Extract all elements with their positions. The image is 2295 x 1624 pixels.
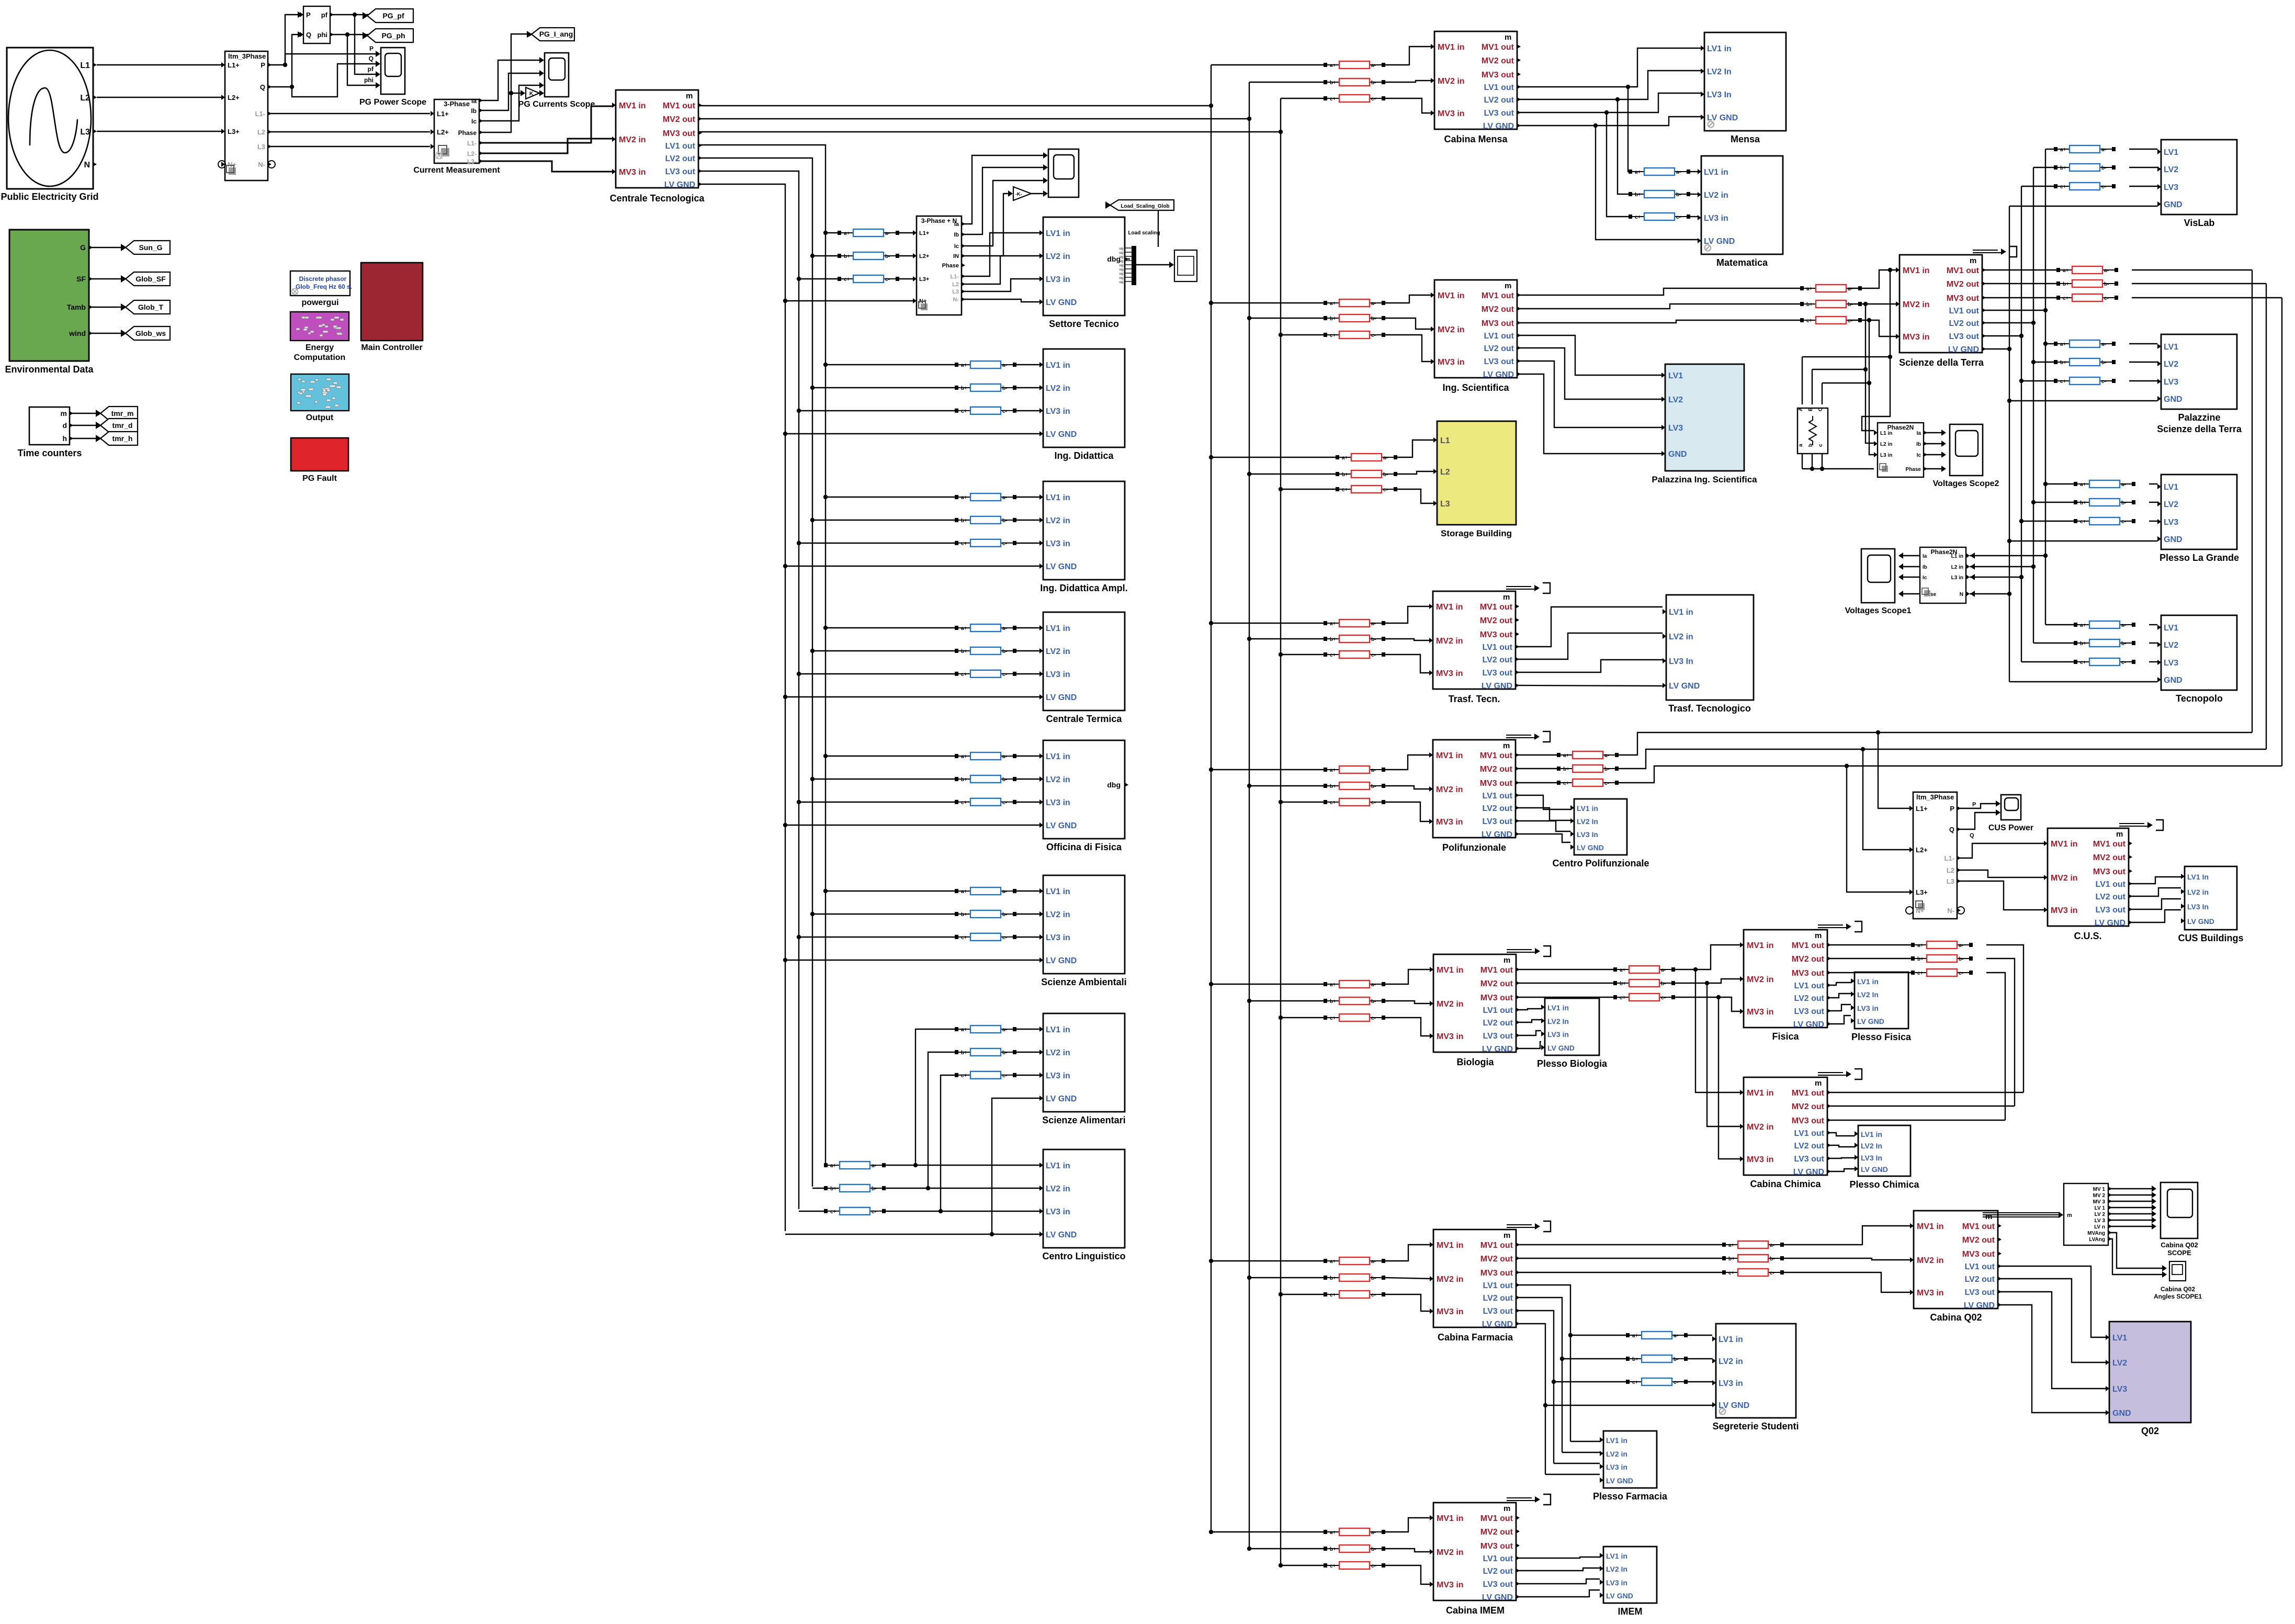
svg-text:LV2 out: LV2 out bbox=[2096, 893, 2126, 901]
wire Ing.Scientifica MV3 out bbox=[1517, 320, 1800, 323]
svg-text:Ing. Didattica Ampl.: Ing. Didattica Ampl. bbox=[1040, 583, 1127, 593]
wire L1 to current measurement bbox=[268, 113, 430, 114]
svg-text:a-: a- bbox=[1383, 455, 1388, 461]
wire Ing.Scientifica LV3 to Palazzina bbox=[1517, 361, 1661, 427]
block Scienze Ambientali bbox=[1039, 875, 1125, 974]
svg-text:Q02: Q02 bbox=[2141, 1426, 2159, 1436]
wire branch to Matematica LV3 bbox=[1607, 112, 1629, 217]
svg-text:c+: c+ bbox=[2060, 379, 2066, 385]
svg-text:a-: a- bbox=[1676, 170, 1681, 175]
MV line Polifunzionale 1 bbox=[1324, 766, 1385, 773]
wire CUS LV4 bbox=[2130, 910, 2181, 922]
MV ring line 3 bbox=[1557, 779, 1619, 786]
svg-text:L3: L3 bbox=[1440, 500, 1450, 509]
svg-text:LV1 out: LV1 out bbox=[1483, 643, 1513, 652]
wire meter to CUS MV1 bbox=[1957, 843, 2044, 858]
svg-text:LV3 in: LV3 in bbox=[1046, 670, 1070, 679]
wire Farmacia MV1 out bbox=[1518, 1244, 1722, 1245]
wire LV dist vertical 3 bbox=[2021, 186, 2022, 662]
svg-text:a+: a+ bbox=[961, 363, 967, 368]
svg-text:b-: b- bbox=[2101, 165, 2106, 171]
svg-text:b-: b- bbox=[1371, 784, 1376, 790]
svg-text:LV3 out: LV3 out bbox=[1794, 1007, 1825, 1016]
svg-text:LV2 in: LV2 in bbox=[2187, 888, 2209, 896]
svg-text:L2: L2 bbox=[257, 128, 265, 136]
svg-text:b+: b+ bbox=[961, 912, 967, 918]
svg-text:MV3 out: MV3 out bbox=[2093, 867, 2126, 876]
svg-text:b: b bbox=[1808, 444, 1814, 447]
wire Ia2 to scope2 bbox=[1924, 454, 1942, 455]
svg-text:MV3 out: MV3 out bbox=[1792, 1116, 1825, 1125]
svg-text:L2+: L2+ bbox=[919, 253, 929, 260]
wire P to pf block bbox=[268, 15, 300, 65]
wire to Plesso Farmacia 2 bbox=[1562, 1452, 1600, 1453]
wire MV ring right edge vertical 1 bbox=[2252, 270, 2253, 732]
svg-text:pf: pf bbox=[368, 65, 374, 73]
LV line Matematica 2 bbox=[1629, 190, 1690, 198]
svg-text:a-: a- bbox=[1002, 495, 1007, 501]
LV line VisLab 3 bbox=[2054, 183, 2116, 190]
block Public Electricity Grid (AC source) bbox=[7, 48, 97, 189]
svg-text:⊘: ⊘ bbox=[1718, 1406, 1727, 1417]
svg-text:LV2 out: LV2 out bbox=[1794, 994, 1825, 1003]
wire P branch bbox=[285, 54, 343, 65]
svg-text:MV2 in: MV2 in bbox=[1437, 1275, 1464, 1284]
svg-text:c+: c+ bbox=[1330, 652, 1336, 658]
svg-text:LV GND: LV GND bbox=[1046, 562, 1077, 571]
svg-text:Plesso Fisica: Plesso Fisica bbox=[1851, 1032, 1912, 1042]
svg-text:b+: b+ bbox=[2080, 500, 2086, 506]
svg-text:SF: SF bbox=[76, 275, 86, 283]
svg-text:LV1 in: LV1 in bbox=[1719, 1335, 1743, 1344]
svg-text:a+: a+ bbox=[2080, 482, 2086, 488]
svg-text:LV1 out: LV1 out bbox=[1484, 332, 1514, 341]
svg-text:L2: L2 bbox=[1440, 468, 1450, 477]
LV line Tecnopolo 3 bbox=[2074, 658, 2135, 666]
svg-text:LV3 in: LV3 in bbox=[1046, 1208, 1070, 1216]
wire to VisLab LV1 bbox=[2045, 149, 2054, 150]
svg-text:GND: GND bbox=[1668, 450, 1687, 459]
LV line Ing. Didattica Ampl. LV3 bbox=[955, 539, 1016, 547]
MV line Cabina Farmacia 3 bbox=[1324, 1291, 1385, 1298]
MV line Storage Building 2 bbox=[1336, 470, 1397, 478]
svg-text:sig: sig bbox=[1119, 273, 1123, 276]
svg-text:LV2 out: LV2 out bbox=[1483, 804, 1513, 813]
svg-text:SCOPE: SCOPE bbox=[2167, 1249, 2191, 1257]
svg-text:LV3 in: LV3 in bbox=[1046, 798, 1070, 807]
svg-text:L2+: L2+ bbox=[228, 94, 240, 101]
wire L2 to current measurement bbox=[268, 131, 430, 132]
svg-text:L1-: L1- bbox=[951, 274, 959, 280]
wire IMEM LV4 bbox=[1518, 1590, 1600, 1597]
MV line Cabina IMEM 3 bbox=[1324, 1562, 1385, 1569]
wire MV1 to Phase2N L1 bbox=[1862, 270, 1890, 431]
block Officina di Fisica bbox=[1039, 740, 1128, 839]
svg-text:LV1: LV1 bbox=[2164, 148, 2178, 157]
svg-text:a+: a+ bbox=[1330, 621, 1336, 627]
goto tag tmr_d bbox=[96, 419, 138, 432]
wire Q to CUS Power bbox=[1957, 813, 1997, 829]
LV line Tecnopolo 2 bbox=[2074, 639, 2135, 647]
wire MV ring row 2 bbox=[1619, 749, 2266, 769]
svg-text:b+: b+ bbox=[1330, 637, 1336, 642]
LV line Segreterie 3 bbox=[1626, 1378, 1688, 1385]
svg-text:MV3 out: MV3 out bbox=[1480, 1269, 1513, 1278]
svg-text:MV3 out: MV3 out bbox=[663, 129, 696, 138]
wire L3 grid to meter bbox=[97, 131, 221, 132]
svg-text:a+: a+ bbox=[1635, 170, 1641, 175]
svg-text:c-: c- bbox=[1371, 1292, 1376, 1298]
MV line Farmacia-Q02 2 bbox=[1722, 1255, 1784, 1262]
svg-text:LV1 in: LV1 in bbox=[1606, 1436, 1627, 1445]
wire SdT MV1 out bbox=[1984, 269, 2056, 270]
svg-text:c-: c- bbox=[1383, 487, 1388, 493]
svg-text:c+: c+ bbox=[1342, 487, 1348, 493]
svg-text:a+: a+ bbox=[961, 495, 967, 501]
svg-text:a-: a- bbox=[1371, 621, 1376, 627]
wire Fisica LV3 bbox=[1828, 1005, 1851, 1011]
svg-text:Glob_T: Glob_T bbox=[138, 303, 164, 311]
svg-text:LV1 in: LV1 in bbox=[1547, 1003, 1569, 1012]
block Cabina IMEM bbox=[1430, 1494, 1551, 1602]
svg-text:a-: a- bbox=[1002, 889, 1007, 895]
svg-text:a-: a- bbox=[1371, 301, 1376, 307]
wire Q branch to scope bbox=[292, 64, 377, 97]
svg-text:Cabina Q02: Cabina Q02 bbox=[2161, 1285, 2195, 1293]
svg-text:m: m bbox=[1503, 1231, 1510, 1240]
wire branch to Matematica LV2 bbox=[1618, 99, 1629, 194]
wire IMEM LV1 bbox=[1518, 1557, 1600, 1558]
wire MV2 tap Cabina IMEM bbox=[1249, 1548, 1324, 1549]
svg-text:c-: c- bbox=[1002, 800, 1007, 806]
svg-text:K: K bbox=[529, 91, 534, 97]
wire to Segreterie GND bbox=[1545, 1405, 1712, 1406]
wire Polifunzionale MV2 out bbox=[1517, 768, 1557, 769]
svg-text:c+: c+ bbox=[2063, 296, 2069, 301]
svg-text:b+: b+ bbox=[961, 518, 967, 524]
svg-text:c+: c+ bbox=[1728, 1270, 1735, 1276]
MV line Cabina Mensa 2 bbox=[1324, 78, 1385, 86]
svg-text:b-: b- bbox=[1959, 956, 1963, 962]
svg-text:MV2 out: MV2 out bbox=[1962, 1236, 1995, 1245]
svg-text:b-: b- bbox=[1002, 912, 1007, 918]
svg-text:N-: N- bbox=[258, 161, 265, 168]
svg-text:LV3 out: LV3 out bbox=[665, 167, 696, 176]
svg-text:MV2 in: MV2 in bbox=[1747, 1123, 1774, 1132]
wire MV3 bus vertical bbox=[1280, 98, 1281, 1565]
wire Q02 LV2 bbox=[1999, 1279, 2106, 1362]
svg-text:LV1 in: LV1 in bbox=[1046, 229, 1070, 238]
MV line Polifunzionale 3 bbox=[1324, 798, 1385, 806]
wire branch to Scienze Alimentari GND bbox=[992, 1098, 1042, 1234]
wire Officina di Fisica GND bbox=[785, 825, 1042, 826]
svg-text:MVAng: MVAng bbox=[2087, 1231, 2105, 1236]
demux Cabina Q02 signals bbox=[2064, 1183, 2112, 1245]
svg-text:LV2 out: LV2 out bbox=[1484, 96, 1514, 105]
svg-text:MV3 in: MV3 in bbox=[1747, 1008, 1774, 1017]
svg-text:MV2 in: MV2 in bbox=[1436, 785, 1463, 794]
MV ring line 1 bbox=[1557, 751, 1619, 759]
LV line Plesso La Grande 2 bbox=[2074, 499, 2135, 506]
svg-text:LV3 In: LV3 In bbox=[1669, 657, 1693, 666]
block Centrale Tecnologica bbox=[612, 90, 702, 189]
MV line Cabina Mensa 3 bbox=[1324, 95, 1385, 102]
svg-text:LV GND: LV GND bbox=[1482, 830, 1512, 839]
svg-text:b-: b- bbox=[1604, 766, 1609, 772]
wire Ib to currents scope bbox=[479, 73, 540, 110]
svg-text:MV3 out: MV3 out bbox=[1792, 969, 1825, 978]
svg-text:a-: a- bbox=[1371, 63, 1376, 69]
svg-text:m: m bbox=[2067, 1212, 2072, 1219]
svg-text:LV3 In: LV3 In bbox=[1577, 830, 1598, 839]
wire tap LV3 Centro Linguistico bbox=[799, 1211, 824, 1212]
block Settore Tecnico bbox=[1039, 217, 1128, 315]
wire LV1 bus from Centrale Tecnologica bbox=[698, 145, 826, 1164]
wire LV dist vertical 1 bbox=[2045, 149, 2046, 625]
MV line Storage Building 3 bbox=[1336, 486, 1397, 493]
wire MV3 tap Polifunzionale bbox=[1281, 802, 1324, 803]
svg-text:L2: L2 bbox=[80, 94, 90, 103]
svg-text:b+: b+ bbox=[1330, 316, 1336, 322]
svg-text:a-: a- bbox=[1371, 1530, 1376, 1536]
svg-text:LV3: LV3 bbox=[2164, 659, 2178, 668]
wire SdT LV1 out bbox=[1984, 310, 2045, 311]
svg-text:MV 1: MV 1 bbox=[2093, 1187, 2106, 1192]
block PG Fault bbox=[291, 438, 348, 471]
svg-text:P: P bbox=[1950, 805, 1954, 813]
svg-text:L1+: L1+ bbox=[1916, 805, 1928, 813]
svg-text:L1-: L1- bbox=[1944, 854, 1955, 862]
svg-text:Centrale Tecnologica: Centrale Tecnologica bbox=[610, 193, 705, 204]
svg-text:sig: sig bbox=[1119, 247, 1123, 251]
svg-text:N-: N- bbox=[1947, 907, 1954, 915]
svg-text:⊘: ⊘ bbox=[1703, 242, 1712, 254]
wire meter L3 to Settore Tecnico LV3 bbox=[962, 279, 1039, 291]
MV line Fisica ring 3 bbox=[1911, 969, 1973, 976]
wire to Plesso Farmacia 4 bbox=[1545, 1474, 1600, 1475]
wire Fisica LV4 bbox=[1828, 1016, 1851, 1024]
svg-text:MV2 out: MV2 out bbox=[1480, 616, 1513, 625]
svg-text:LV2 In: LV2 In bbox=[1861, 1142, 1882, 1150]
wire Scienze Ambientali GND bbox=[785, 960, 1042, 961]
svg-text:Phase: Phase bbox=[942, 263, 959, 269]
svg-text:L3+: L3+ bbox=[919, 276, 929, 283]
svg-text:L3: L3 bbox=[1947, 877, 1954, 885]
svg-text:Cabina IMEM: Cabina IMEM bbox=[1446, 1605, 1505, 1616]
svg-text:⊘: ⊘ bbox=[1706, 119, 1715, 130]
wire CUS LV3 bbox=[2130, 899, 2181, 909]
svg-text:c+: c+ bbox=[1330, 333, 1336, 339]
svg-text:c+: c+ bbox=[961, 800, 967, 806]
wire Chimica LV4 bbox=[1828, 1169, 1855, 1171]
block Plesso Biologia bbox=[1541, 998, 1599, 1055]
wire Polifunzionale MV3 out bbox=[1517, 782, 1557, 783]
wire MVAng to angles scope bbox=[2108, 1233, 2164, 1268]
wire LV GND bus bbox=[698, 184, 785, 1231]
svg-text:b-: b- bbox=[1002, 386, 1007, 391]
svg-text:Ic: Ic bbox=[471, 118, 477, 125]
svg-text:MV1 out: MV1 out bbox=[1947, 266, 1980, 275]
wire pf branch to scope bbox=[355, 15, 377, 74]
svg-text:phi: phi bbox=[364, 76, 374, 84]
block Plesso Farmacia bbox=[1600, 1431, 1657, 1488]
svg-text:a+: a+ bbox=[961, 1027, 967, 1033]
svg-text:LV1 in: LV1 in bbox=[1577, 804, 1598, 813]
wire Glob_ws bbox=[89, 333, 129, 334]
goto tag PG_pf bbox=[363, 9, 413, 22]
svg-text:Q: Q bbox=[306, 31, 311, 39]
svg-text:Matematica: Matematica bbox=[1716, 257, 1768, 268]
svg-text:MV3 in: MV3 in bbox=[1436, 669, 1463, 678]
svg-text:LV3 in: LV3 in bbox=[1704, 214, 1728, 223]
svg-text:a-: a- bbox=[2121, 623, 2126, 628]
svg-text:LV1 out: LV1 out bbox=[1483, 1281, 1513, 1290]
svg-text:MV1 in: MV1 in bbox=[619, 101, 646, 110]
svg-text:L1: L1 bbox=[1440, 436, 1450, 445]
svg-text:LV3 out: LV3 out bbox=[1965, 1288, 1995, 1297]
wire SdT MV2 out bbox=[1984, 283, 2056, 284]
wire tap GND to Settore Tecnico meter bbox=[785, 300, 913, 301]
svg-text:MV3 in: MV3 in bbox=[1436, 818, 1463, 827]
wire Polifunzionale LV1 to Centro bbox=[1517, 795, 1570, 809]
svg-text:L1 in: L1 in bbox=[1880, 431, 1892, 436]
svg-text:LV2 out: LV2 out bbox=[665, 154, 696, 163]
wire tmr_m bbox=[70, 413, 104, 414]
svg-text:L2+: L2+ bbox=[437, 128, 449, 136]
wire to Segreterie LV2 bbox=[1562, 1358, 1626, 1359]
svg-text:L3+: L3+ bbox=[228, 128, 240, 136]
svg-text:MV3 in: MV3 in bbox=[1917, 1289, 1944, 1298]
svg-text:L2 in: L2 in bbox=[1951, 565, 1963, 570]
block Centro Polifunzionale bbox=[1570, 799, 1627, 855]
svg-text:VisLab: VisLab bbox=[2184, 218, 2215, 228]
svg-text:LV3 out: LV3 out bbox=[1484, 357, 1514, 366]
svg-text:LV GND: LV GND bbox=[1046, 1095, 1077, 1103]
wire Phase branch to gain bbox=[511, 93, 522, 94]
wire Ib to scope bbox=[962, 167, 1044, 234]
wire Ing.Scientifica MV2 out bbox=[1517, 304, 1800, 309]
svg-text:MV2 in: MV2 in bbox=[1747, 975, 1774, 984]
svg-text:LV2 in: LV2 in bbox=[1046, 516, 1070, 525]
svg-text:G: G bbox=[80, 243, 86, 252]
wire Q02 sig 4 bbox=[2108, 1207, 2153, 1208]
goto tag tmr_h bbox=[96, 432, 138, 445]
block Main Controller bbox=[361, 263, 423, 341]
MV line Fisica ring 1 bbox=[1911, 941, 1973, 949]
wire Polifunzionale LV4 to Centro bbox=[1517, 834, 1570, 842]
scope CUS Power bbox=[2001, 795, 2021, 820]
svg-text:LV3 in: LV3 in bbox=[1046, 275, 1070, 284]
MV line Ing. Scientifica 1 bbox=[1324, 299, 1385, 307]
svg-text:N: N bbox=[1960, 592, 1963, 597]
wire LV dist vertical 4 bbox=[2009, 206, 2010, 682]
svg-text:c-: c- bbox=[2101, 379, 2106, 385]
MV line to Scienze della Terra 2 bbox=[1800, 300, 1862, 308]
svg-text:LV2 out: LV2 out bbox=[1794, 1142, 1825, 1151]
wire MV2 tap Trasf. Tecn. bbox=[1249, 638, 1324, 639]
svg-text:MV2 in: MV2 in bbox=[619, 136, 646, 144]
svg-text:b+: b+ bbox=[961, 649, 967, 655]
svg-text:MV3 out: MV3 out bbox=[1482, 319, 1514, 328]
svg-text:h: h bbox=[62, 434, 67, 443]
block Energy Computation bbox=[290, 312, 349, 341]
svg-text:tmr_d: tmr_d bbox=[112, 421, 133, 430]
wire Ia0 to scope2 bbox=[1924, 432, 1942, 433]
svg-text:LV GND: LV GND bbox=[1046, 693, 1077, 702]
svg-text:Q: Q bbox=[1949, 826, 1954, 833]
svg-text:MV3 out: MV3 out bbox=[1962, 1250, 1995, 1259]
wire to Tecnopolo GND bbox=[2009, 681, 2157, 682]
svg-text:MV1 in: MV1 in bbox=[1437, 1514, 1464, 1523]
svg-text:LV3 in: LV3 in bbox=[1857, 1004, 1879, 1012]
wire Chimica LV1 bbox=[1828, 1133, 1855, 1136]
svg-text:LV3 out: LV3 out bbox=[1483, 1580, 1513, 1589]
svg-text:LV2 in: LV2 in bbox=[1606, 1450, 1627, 1458]
svg-text:c-: c- bbox=[1002, 935, 1007, 941]
svg-text:b-: b- bbox=[1371, 80, 1376, 86]
wire MV3 to Phase2N L3 bbox=[1869, 320, 1874, 455]
svg-text:Scienze della Terra: Scienze della Terra bbox=[1899, 357, 1984, 368]
svg-text:c-: c- bbox=[1371, 1016, 1376, 1021]
svg-text:MV1 in: MV1 in bbox=[1917, 1222, 1944, 1231]
wire Phase to scope2 bbox=[1924, 468, 1942, 469]
svg-text:m: m bbox=[61, 409, 67, 418]
wire MV3 tap Biologia bbox=[1281, 1017, 1324, 1018]
svg-text:PG_I_ang: PG_I_ang bbox=[539, 30, 573, 38]
svg-text:m: m bbox=[1503, 956, 1510, 965]
wire phase to scope1 bbox=[1902, 593, 1920, 594]
svg-text:LV2: LV2 bbox=[1668, 396, 1683, 404]
wire MV2 bus bbox=[698, 118, 1249, 119]
svg-text:MV2 in: MV2 in bbox=[1903, 300, 1930, 309]
svg-text:LV 3: LV 3 bbox=[2095, 1218, 2106, 1224]
wire Farmacia LV4 down bbox=[1518, 1324, 1545, 1474]
svg-text:c+: c+ bbox=[1330, 1016, 1336, 1021]
svg-text:m: m bbox=[1503, 593, 1510, 602]
svg-text:b+: b+ bbox=[830, 1186, 836, 1192]
block Biologia bbox=[1430, 946, 1551, 1054]
svg-text:Current Measurement: Current Measurement bbox=[413, 166, 500, 175]
svg-text:a+: a+ bbox=[1330, 982, 1336, 988]
wire MV3 tap Storage Building bbox=[1281, 489, 1336, 490]
svg-text:a-: a- bbox=[2101, 342, 2106, 347]
wire ring to CUS L2+ bbox=[1863, 749, 1909, 850]
MV line Ing. Scientifica 3 bbox=[1324, 331, 1385, 339]
svg-text:LV GND: LV GND bbox=[1046, 956, 1077, 965]
svg-text:A: A bbox=[1798, 408, 1804, 411]
svg-text:MV3 in: MV3 in bbox=[1438, 109, 1465, 118]
svg-text:pf: pf bbox=[321, 11, 328, 19]
wire MV1 tap Cabina Farmacia bbox=[1211, 1260, 1324, 1261]
svg-text:LV2 in: LV2 in bbox=[1046, 1185, 1070, 1193]
svg-text:powergui: powergui bbox=[301, 298, 338, 307]
svg-text:LV GND: LV GND bbox=[2187, 917, 2214, 926]
LV line Tecnopolo 1 bbox=[2074, 621, 2135, 628]
wire Biologia to Cabina Chimica MV3 bbox=[1719, 997, 1740, 1159]
svg-text:Output: Output bbox=[306, 413, 334, 422]
wire Q02 sig 7 bbox=[2108, 1226, 2153, 1227]
wire Ing. Didattica Ampl. LV3 bbox=[799, 543, 955, 544]
wire Fisica MV2 ring down bbox=[1986, 958, 2015, 1106]
wire Q02 LV3 bbox=[1999, 1292, 2106, 1389]
svg-text:LV1: LV1 bbox=[1668, 371, 1683, 380]
scope Settore Tecnico voltages bbox=[1048, 149, 1079, 197]
svg-text:LV1 in: LV1 in bbox=[1046, 624, 1070, 633]
svg-text:LV1 in: LV1 in bbox=[1046, 1025, 1070, 1034]
svg-text:c+: c+ bbox=[1917, 971, 1924, 976]
wire Q02 sig 5 bbox=[2108, 1213, 2153, 1214]
svg-text:c+: c+ bbox=[1330, 96, 1336, 102]
